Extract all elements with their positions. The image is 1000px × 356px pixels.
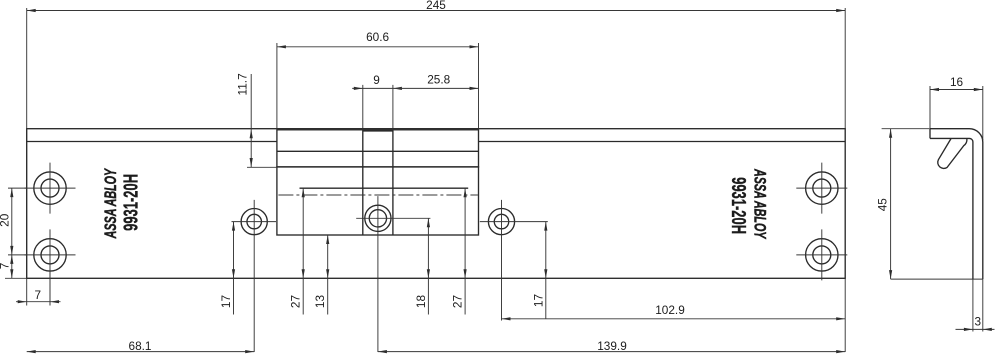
dim 7 left <box>0 255 27 278</box>
svg-text:20: 20 <box>0 213 12 227</box>
hole top-right <box>796 163 847 214</box>
dim 20 left <box>0 188 26 255</box>
svg-text:9: 9 <box>373 73 380 87</box>
hole top-left <box>25 163 76 214</box>
channel right edge <box>392 130 394 235</box>
svg-text:17: 17 <box>531 294 545 307</box>
lip bend line <box>27 141 846 143</box>
svg-text:25.8: 25.8 <box>427 73 450 87</box>
svg-text:7: 7 <box>0 263 12 270</box>
channel left edge <box>362 130 364 235</box>
dim 139.9 <box>378 339 845 353</box>
svg-text:45: 45 <box>876 198 890 212</box>
dim 68.1 <box>27 339 255 353</box>
svg-text:102.9: 102.9 <box>655 303 685 317</box>
channel top line <box>363 130 393 132</box>
dim 3 <box>956 279 995 331</box>
dim 25.8 <box>393 73 479 90</box>
dim 18 <box>414 218 430 314</box>
dim 13 <box>313 235 329 315</box>
strike cavity box <box>277 167 479 235</box>
svg-text:68.1: 68.1 <box>129 339 152 353</box>
svg-text:27: 27 <box>451 295 465 308</box>
dim 11.7 <box>236 73 277 167</box>
lip left end <box>929 129 931 139</box>
svg-text:ASSA ABLOY: ASSA ABLOY <box>101 168 120 239</box>
svg-text:3: 3 <box>975 315 982 329</box>
side view profile <box>891 129 983 279</box>
dim 7 bottom <box>16 270 61 306</box>
svg-text:27: 27 <box>289 295 303 308</box>
dim 27 second <box>451 188 467 314</box>
profile bottom <box>891 278 983 280</box>
svg-text:9931-20H: 9931-20H <box>727 177 749 234</box>
dim 27 first <box>289 188 305 314</box>
hole bottom-right <box>796 229 847 280</box>
svg-text:139.9: 139.9 <box>597 339 627 353</box>
hole mid-center <box>356 196 430 352</box>
dim 60.6 <box>277 30 479 128</box>
hole mid-right <box>480 200 548 321</box>
svg-text:11.7: 11.7 <box>236 73 250 95</box>
keeper raised box <box>277 130 479 167</box>
faceplate outline <box>27 129 846 279</box>
hole bottom-left <box>25 229 76 305</box>
dim 45 <box>876 129 930 279</box>
svg-text:7: 7 <box>35 288 42 302</box>
svg-text:18: 18 <box>414 295 428 309</box>
svg-text:9931-20H: 9931-20H <box>121 174 143 231</box>
svg-text:17: 17 <box>219 295 233 308</box>
svg-text:ASSA ABLOY: ASSA ABLOY <box>751 168 770 239</box>
keeper depth line <box>300 187 469 189</box>
lip underside and inner edge <box>930 138 973 279</box>
dim 245 <box>27 0 846 129</box>
hidden centerline <box>278 194 478 196</box>
keeper box divider <box>277 150 479 152</box>
dim 16 <box>930 75 983 140</box>
svg-text:245: 245 <box>426 0 446 12</box>
hole mid-left <box>232 200 277 352</box>
dim 102.9 <box>502 278 846 352</box>
dim 17 right <box>531 222 547 319</box>
svg-text:60.6: 60.6 <box>366 30 389 44</box>
dim 17 left <box>219 222 235 315</box>
dim 9 <box>352 73 402 128</box>
bent tab <box>938 139 967 169</box>
svg-text:16: 16 <box>950 75 964 89</box>
lip top and outer edge <box>930 129 983 279</box>
svg-text:13: 13 <box>313 295 327 309</box>
